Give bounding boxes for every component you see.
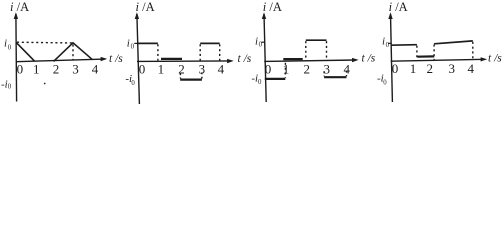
svg-text:0: 0 — [17, 62, 24, 77]
svg-text:0: 0 — [259, 42, 263, 49]
svg-text:1: 1 — [33, 62, 40, 77]
graph 2: y-axis arrowhead — [135, 12, 139, 19]
graph 3: y-axis arrowhead — [262, 12, 266, 19]
svg-text:1: 1 — [410, 61, 417, 76]
svg-text:i /A: i /A — [263, 0, 282, 14]
graph 4: dashed vertical at t=4 — [472, 42, 474, 59]
svg-text:4: 4 — [218, 61, 225, 76]
svg-text:i: i — [127, 37, 130, 49]
graph 3: t-axis arrowhead — [352, 58, 359, 62]
svg-text:i /A: i /A — [10, 0, 29, 14]
svg-text:0: 0 — [383, 80, 387, 87]
graph 4: pulse top 0-1 at i0 — [391, 44, 417, 47]
graph 4: t-axis — [391, 59, 485, 61]
svg-text:0: 0 — [131, 80, 135, 87]
graph 3: dashed vertical at t=1 below axis — [284, 63, 286, 78]
svg-text:1: 1 — [158, 61, 165, 76]
svg-text:i: i — [382, 36, 385, 48]
graph 3: pulse top 2-3 at i0 — [306, 39, 327, 41]
svg-text:2: 2 — [304, 61, 311, 76]
graph 1: y-axis arrowhead — [14, 12, 18, 19]
graph 2: zero segment 1-2 — [161, 58, 182, 60]
svg-text:t /s: t /s — [488, 52, 502, 64]
svg-text:3: 3 — [72, 62, 79, 77]
svg-text:i: i — [4, 37, 7, 49]
svg-text:t /s: t /s — [109, 53, 123, 65]
svg-text:0: 0 — [386, 42, 390, 49]
svg-text:3: 3 — [449, 61, 456, 76]
svg-text:4: 4 — [92, 62, 99, 77]
graph 3: dashed vertical at t=2 above axis — [305, 41, 307, 60]
graph 2: -i0 segment 2-3 — [180, 78, 202, 80]
graph 2: t-axis — [137, 60, 231, 63]
graph 1: dashed vertical at t=3 — [72, 45, 74, 60]
svg-text:t /s: t /s — [362, 53, 376, 65]
svg-text:0: 0 — [258, 79, 262, 86]
graph 2: pulse top 3-4 at i0 — [200, 42, 220, 44]
graph 3: zero segment 1-2 — [283, 58, 302, 60]
graph 3: dotted vertical at t=3 below axis — [323, 71, 325, 76]
graph 2: dashed vertical at t=3 above axis — [199, 44, 201, 60]
svg-text:4: 4 — [344, 61, 351, 76]
graph 3: t-axis — [264, 60, 356, 61]
svg-text:i /A: i /A — [136, 0, 155, 14]
svg-text:3: 3 — [324, 61, 331, 76]
graph 4: t-axis arrowhead — [481, 57, 488, 61]
graph 3: dotted vertical at t=4 below axis — [346, 71, 348, 77]
graph 4: y-axis arrowhead — [388, 12, 392, 19]
svg-text:0: 0 — [8, 44, 12, 51]
svg-text:0: 0 — [8, 84, 12, 91]
svg-text:i /A: i /A — [389, 0, 408, 14]
graph 2: t-axis arrowhead — [227, 59, 234, 63]
svg-text:0: 0 — [139, 61, 146, 76]
svg-text:2: 2 — [53, 62, 60, 77]
graph 4: dashed vertical at t=2 — [433, 45, 435, 60]
graph 3: -i0 segment 0-1 — [265, 78, 286, 80]
graph 4: zero segment 1-2 — [417, 55, 434, 57]
graph 3: y-axis — [264, 14, 266, 102]
svg-text:4: 4 — [467, 61, 474, 76]
graph 2: dashed vertical at t=1 — [157, 44, 159, 60]
graph 4: i0 tick on y-axis — [388, 42, 391, 44]
graph 1: t-axis arrowhead — [101, 57, 108, 61]
svg-text:1: 1 — [283, 61, 290, 76]
graph 4: y-axis — [391, 14, 393, 102]
graph 1: waveform falling ramp 0-1 — [16, 42, 34, 61]
graph 1: t-axis — [16, 59, 105, 62]
graph 2: dashed vertical at t=4 above axis — [219, 44, 221, 60]
svg-text:2: 2 — [178, 61, 185, 76]
svg-text:t /s: t /s — [238, 53, 252, 65]
graph 2: dotted vertical at t=3 below axis — [201, 72, 203, 78]
graph 1: y-axis — [15, 14, 18, 102]
graph 2: dotted vertical at t=2 below axis — [179, 73, 181, 78]
graph 2: i0 tick on y-axis — [134, 42, 137, 44]
graph 1: stray speck — [44, 83, 46, 85]
graph 4: pulse top 2-4 at i0 — [434, 41, 473, 44]
svg-text:0: 0 — [131, 43, 135, 50]
graph 2: pulse top 0-1 at i0 — [137, 42, 158, 44]
graph 3: i0 tick on y-axis — [261, 41, 264, 43]
graph 1: waveform triangle 2-4 — [54, 43, 93, 62]
svg-text:0: 0 — [392, 61, 399, 76]
svg-text:3: 3 — [199, 61, 206, 76]
svg-text:2: 2 — [427, 61, 434, 76]
graph 3: -i0 segment 3-4 — [324, 76, 346, 78]
svg-text:-i: -i — [1, 79, 8, 91]
graph 2: y-axis — [137, 14, 140, 104]
graph 1: dashed i0 level line — [17, 41, 73, 44]
graph 3: dashed vertical at t=3 above axis — [326, 41, 328, 60]
svg-text:0: 0 — [265, 61, 272, 76]
graph 4: dashed vertical at t=1 — [416, 46, 418, 61]
svg-text:i: i — [255, 35, 258, 47]
